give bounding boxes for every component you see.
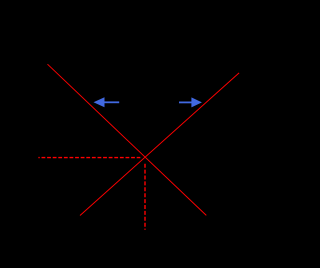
equilibrium quantity dashed line (vertical red dashed)	[144, 164, 146, 230]
demand curve D (red, downward sloping)	[48, 64, 207, 215]
x-axis (black, invisible on black background)	[38, 229, 250, 231]
y-axis (black, invisible on black background)	[37, 20, 39, 230]
right shift arrow (blue, pointing right at supply curve)	[179, 97, 202, 107]
left shift arrow (blue, pointing left at demand curve)	[94, 97, 120, 107]
supply curve S (red, upward sloping)	[80, 73, 239, 216]
equilibrium price dashed line (horizontal red dashed)	[38, 157, 140, 159]
